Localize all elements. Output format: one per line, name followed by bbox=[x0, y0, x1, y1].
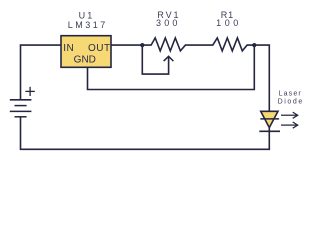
svg-text:Diode: Diode bbox=[278, 99, 304, 106]
svg-text:Laser: Laser bbox=[279, 91, 302, 98]
svg-text:GND: GND bbox=[74, 55, 96, 66]
svg-text:100: 100 bbox=[216, 18, 242, 28]
svg-text:LM317: LM317 bbox=[68, 20, 108, 30]
svg-text:U1: U1 bbox=[79, 10, 95, 20]
svg-text:300: 300 bbox=[156, 18, 181, 28]
svg-text:OUT: OUT bbox=[88, 43, 111, 54]
svg-text:IN: IN bbox=[63, 43, 74, 54]
